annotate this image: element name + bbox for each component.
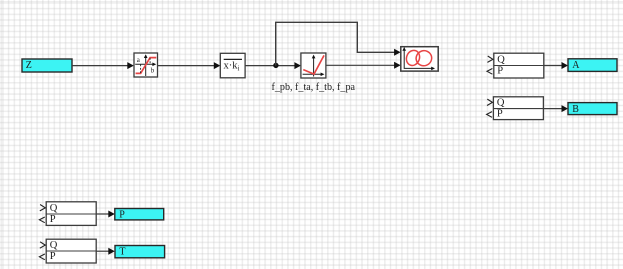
svg-text:T: T [119, 247, 125, 258]
junction node [273, 63, 278, 68]
wire to terminal A [544, 62, 568, 69]
subsystem block QP right 1 [487, 53, 544, 78]
svg-text:Q: Q [50, 203, 58, 214]
terminal P [115, 209, 164, 221]
terminal Z [22, 59, 72, 72]
svg-text:P: P [50, 251, 56, 262]
svg-text:Q: Q [497, 55, 505, 66]
wire branch to scope input 1 [276, 22, 401, 65]
scope block XY [401, 47, 438, 71]
subsystem block QP bottom 2 [39, 239, 96, 263]
wire gain to abs [245, 62, 301, 69]
svg-text:b: b [151, 67, 155, 75]
svg-text:f_pb, f_ta, f_tb, f_pa: f_pb, f_ta, f_tb, f_pa [272, 82, 356, 93]
svg-text:P: P [119, 210, 125, 221]
svg-text:x·ki: x·ki [224, 61, 240, 73]
svg-text:P: P [497, 109, 503, 120]
wire Z to saturation [72, 62, 134, 69]
subsystem block QP bottom 1 [39, 202, 96, 226]
svg-text:B: B [572, 104, 579, 115]
wire to terminal T [96, 248, 115, 255]
svg-text:P: P [50, 214, 56, 225]
terminal T [115, 246, 165, 258]
wire abs to scope input 2 [326, 62, 401, 69]
wire saturation to gain [158, 62, 221, 69]
saturation block [134, 53, 158, 77]
subsystem block QP right 2 [487, 97, 544, 120]
wire to terminal B [543, 105, 568, 112]
svg-text:Q: Q [497, 98, 505, 109]
svg-text:A: A [572, 60, 580, 71]
svg-text:P: P [497, 66, 503, 77]
abs block [301, 53, 326, 78]
terminal A [568, 59, 617, 72]
wire to terminal P [96, 211, 115, 218]
svg-text:Z: Z [26, 60, 32, 71]
gain block x*ki [220, 53, 245, 78]
terminal B [568, 103, 617, 116]
svg-text:Q: Q [50, 240, 58, 251]
